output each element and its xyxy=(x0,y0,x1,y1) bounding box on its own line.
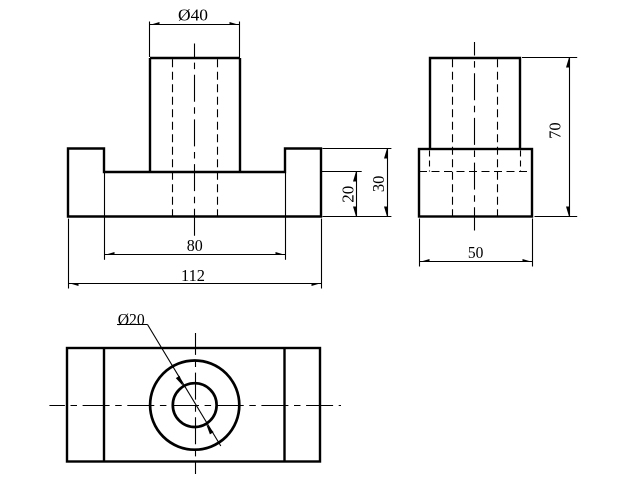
dim 80 dimension line xyxy=(105,254,286,256)
dim Ø40 extension line right xyxy=(239,22,241,58)
side view boss outline xyxy=(430,58,520,149)
front view hidden hole right line xyxy=(217,59,219,216)
side view hidden hole left line xyxy=(452,59,454,216)
dim Ø40 extension line left xyxy=(149,22,151,58)
dim 112 arrow right xyxy=(312,283,322,286)
side view base outline xyxy=(419,149,532,217)
dim 70 extension line bottom xyxy=(535,216,578,218)
dim 112 arrow left xyxy=(69,283,79,286)
dim 30 arrow bottom xyxy=(384,207,387,217)
top view horizontal centerline xyxy=(49,405,341,407)
dim Ø40 arrow left xyxy=(150,22,160,25)
svg-text:70: 70 xyxy=(545,122,564,139)
dim 30/20 extension line bottom xyxy=(323,216,392,218)
dim Ø40 dimension line xyxy=(150,24,240,26)
front view boss top edge xyxy=(150,57,240,59)
svg-text:50: 50 xyxy=(468,243,484,262)
svg-text:112: 112 xyxy=(181,266,205,285)
dim 30 dimension line xyxy=(387,149,389,217)
front view base outline xyxy=(68,149,321,217)
dim 50 extension line right xyxy=(532,219,534,267)
svg-text:80: 80 xyxy=(187,236,203,255)
dim Ø20 arrow lower-right xyxy=(206,424,214,435)
front view boss left edge xyxy=(149,58,151,172)
dim 30 arrow top xyxy=(384,149,387,159)
dim 80 arrow right xyxy=(276,252,286,255)
dim 70 arrow top xyxy=(566,58,569,68)
top view left step line xyxy=(103,348,105,462)
dim 20 extension line top xyxy=(322,171,362,173)
top view hole circle xyxy=(173,383,217,427)
dim 50 arrow left xyxy=(420,259,430,262)
front view boss right edge xyxy=(239,58,241,172)
dim 70 extension line top xyxy=(522,57,577,59)
dim 80 extension line left xyxy=(104,173,106,260)
dim 20 arrow bottom xyxy=(353,207,356,217)
dim 80 arrow left xyxy=(105,252,115,255)
front view vertical centerline xyxy=(194,44,196,238)
dim 80 extension line right xyxy=(285,173,287,260)
svg-text:Ø40: Ø40 xyxy=(178,6,208,25)
dim 20 arrow top xyxy=(353,172,356,182)
svg-text:Ø20: Ø20 xyxy=(118,310,145,329)
dim 112 extension line right xyxy=(321,219,323,289)
top view vertical centerline xyxy=(195,333,197,474)
dim 70 dimension line xyxy=(569,58,571,217)
dim 30 extension line top xyxy=(323,148,392,150)
side view hidden shelf line xyxy=(419,171,533,173)
dim 112 extension line left xyxy=(68,219,70,289)
dim 20 dimension line xyxy=(356,172,358,217)
dim Ø20 arrow upper-left xyxy=(176,376,184,387)
top view right step line xyxy=(283,348,285,462)
dim 112 dimension line xyxy=(69,283,322,285)
dim 50 arrow right xyxy=(523,259,533,262)
dim Ø20 leader underline xyxy=(117,324,148,326)
svg-text:20: 20 xyxy=(338,186,357,203)
dim 50 extension line left xyxy=(419,219,421,267)
svg-text:30: 30 xyxy=(369,176,388,193)
top view boss circle xyxy=(150,361,239,450)
side view hidden hole right line xyxy=(497,59,499,216)
dim 50 dimension line xyxy=(420,261,533,263)
side view hidden boss right edge in base xyxy=(520,151,522,172)
side view vertical centerline xyxy=(474,42,476,231)
front view hidden hole left line xyxy=(172,59,174,216)
dim Ø20 leader line xyxy=(148,325,221,447)
dim 70 arrow bottom xyxy=(566,207,569,217)
top view rectangle outline xyxy=(67,348,320,462)
side view hidden boss left edge in base xyxy=(429,151,431,172)
dim Ø40 arrow right xyxy=(230,22,240,25)
